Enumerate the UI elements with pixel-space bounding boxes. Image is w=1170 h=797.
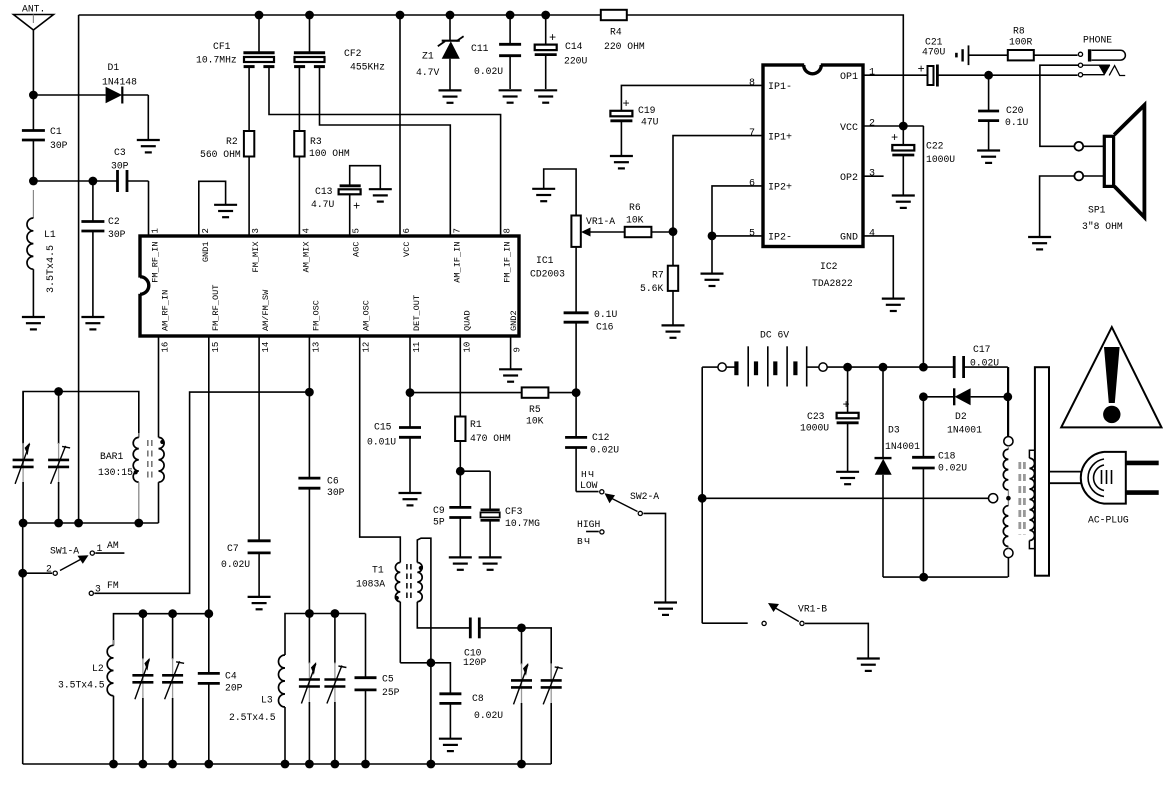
transformer PWR primary winding <box>989 367 1014 577</box>
capacitor C12 0.02U <box>565 393 619 492</box>
ceramic filter CF2 455KHz <box>294 11 385 73</box>
svg-text:CF3: CF3 <box>505 506 523 517</box>
svg-text:560 OHM: 560 OHM <box>200 149 241 160</box>
wire CF2 right lead to pin7 AM_IF_IN <box>320 66 451 236</box>
ground for C23 <box>836 472 859 484</box>
svg-text:20P: 20P <box>225 683 243 694</box>
svg-text:3″8 OHM: 3″8 OHM <box>1082 221 1123 232</box>
warning triangle <box>1061 327 1161 427</box>
svg-text:47U: 47U <box>641 117 659 128</box>
svg-text:C12: C12 <box>592 432 610 443</box>
transformer PWR core <box>1020 462 1025 535</box>
svg-text:AM_MIX: AM_MIX <box>301 242 311 273</box>
phone jack tip contact bars <box>956 45 1007 65</box>
IC1 pin 2 GND1 <box>201 228 211 262</box>
svg-text:IP1+: IP1+ <box>768 132 792 143</box>
variable capacitor AM tuning gang 1 <box>13 392 34 524</box>
variable capacitor FM trimmer <box>541 663 563 764</box>
IC2 pin 2 VCC <box>840 119 875 134</box>
capacitor C4 20P <box>198 614 243 764</box>
wire tank to SW1 pole <box>18 523 27 764</box>
capacitor C11 0.02U <box>471 11 521 89</box>
ceramic filter CF1 10.7MHz <box>196 11 275 67</box>
svg-text:3: 3 <box>251 228 261 233</box>
svg-text:QUAD: QUAD <box>462 310 472 331</box>
capacitor C17 0.02U (series) <box>954 344 1008 437</box>
svg-text:HIGH: HIGH <box>577 519 600 530</box>
svg-text:R2: R2 <box>226 136 238 147</box>
wire pin9 GND2 to ground <box>510 336 512 369</box>
svg-text:AC-PLUG: AC-PLUG <box>1088 514 1129 525</box>
svg-text:30P: 30P <box>327 487 345 498</box>
svg-text:C19: C19 <box>638 105 656 116</box>
svg-text:4: 4 <box>301 228 311 233</box>
svg-text:+: + <box>353 200 360 214</box>
node R1/C9/CF3 <box>456 467 490 476</box>
ground for C9 <box>449 557 472 569</box>
svg-text:L2: L2 <box>92 663 104 674</box>
svg-text:1000U: 1000U <box>800 422 829 433</box>
svg-text:1000U: 1000U <box>926 154 955 165</box>
wire antenna to D1 and C1 node <box>29 91 106 100</box>
svg-text:L1: L1 <box>44 229 56 240</box>
svg-text:+: + <box>891 131 898 145</box>
wire IC2 pin7 to R6/R7 node <box>673 136 763 232</box>
svg-text:FM_MIX: FM_MIX <box>251 242 261 273</box>
resistor R2 560 OHM <box>200 131 254 236</box>
node C10/FM gang <box>517 624 551 680</box>
diode D1 1N4148 <box>102 62 148 140</box>
capacitor C8 0.02U <box>431 663 503 739</box>
wire bottom ground bus <box>23 760 552 769</box>
IC2 pin 1 OP1 <box>840 68 875 83</box>
capacitor C20 0.1U <box>978 75 1028 150</box>
svg-text:8: 8 <box>749 78 755 89</box>
IC1 pin 16 AM_RF_IN <box>161 290 171 353</box>
op IC2 TDA2822 body <box>763 63 863 289</box>
svg-text:1083A: 1083A <box>356 578 385 589</box>
svg-text:R3: R3 <box>310 136 322 147</box>
svg-text:6: 6 <box>402 228 412 233</box>
svg-text:C13: C13 <box>315 186 333 197</box>
IC2 pin 5 IP2- <box>749 228 792 243</box>
svg-text:C14: C14 <box>565 41 583 52</box>
svg-text:C7: C7 <box>227 543 239 554</box>
capacitor C7 0.02U on pin14 <box>221 336 271 597</box>
svg-text:CF2: CF2 <box>344 48 362 59</box>
wire pin10 QUAD to R1 <box>459 336 461 417</box>
variable capacitor FM tuning gang <box>511 628 532 764</box>
svg-text:455KHz: 455KHz <box>350 61 385 72</box>
svg-text:C18: C18 <box>938 450 956 461</box>
svg-text:C20: C20 <box>1006 105 1024 116</box>
wire IC2 pin2 VCC node <box>863 122 924 131</box>
svg-text:4.7U: 4.7U <box>311 199 334 210</box>
potentiometer VR1-A <box>544 169 625 313</box>
resistor R6 10K <box>625 202 673 237</box>
svg-text:C17: C17 <box>973 344 991 355</box>
wire IC2 pin6 to pin5 and ground <box>708 186 763 274</box>
switch SW1-A FM throw <box>89 392 309 595</box>
capacitor C10 120P (series) <box>463 618 522 668</box>
svg-text:C3: C3 <box>114 147 126 158</box>
svg-text:C9: C9 <box>433 505 445 516</box>
capacitor C1 30P <box>22 95 68 181</box>
capacitor C6 30P <box>298 475 344 613</box>
svg-text:1N4001: 1N4001 <box>885 441 920 452</box>
IC1 pin 11 DET_OUT <box>412 295 422 353</box>
resistor R7 5.6K <box>640 232 678 325</box>
wire IC2 pin4 GND to ground <box>863 236 893 299</box>
capacitor C5 25P <box>355 614 400 765</box>
capacitor C18 0.02U <box>912 397 967 577</box>
ground for IC2 pin4 <box>882 299 905 311</box>
svg-text:R5: R5 <box>529 404 541 415</box>
svg-text:0.02U: 0.02U <box>474 710 503 721</box>
wire BAR1 tank top <box>23 392 139 467</box>
capacitor C15 0.01U <box>367 393 421 493</box>
svg-text:C5: C5 <box>382 673 394 684</box>
transformer BAR1 130:15 ferrite antenna <box>98 336 164 523</box>
capacitor C21 470U electrolytic (series) <box>918 37 989 87</box>
ground for D1 <box>137 140 160 152</box>
svg-text:6: 6 <box>749 178 755 189</box>
svg-text:11: 11 <box>412 342 422 353</box>
svg-text:1: 1 <box>869 68 875 79</box>
svg-text:120P: 120P <box>463 657 486 668</box>
resistor R4 220 OHM on rail <box>601 10 645 52</box>
svg-text:C2: C2 <box>108 216 120 227</box>
svg-text:3: 3 <box>869 169 875 180</box>
variable capacitor SW gang <box>299 614 320 765</box>
svg-text:C15: C15 <box>374 422 392 433</box>
wire pin11 DET_OUT node <box>406 336 522 397</box>
svg-text:VCC: VCC <box>402 242 412 257</box>
switch SW2-A <box>576 490 665 603</box>
node OP1/C20 junction <box>984 71 1077 80</box>
svg-text:ANT.: ANT. <box>22 4 45 15</box>
svg-text:Z1: Z1 <box>422 51 434 62</box>
svg-text:3.5Tx4.5: 3.5Tx4.5 <box>58 680 105 691</box>
wire rectifier bottom <box>883 573 1008 582</box>
variable capacitor AM trimmer 2 <box>48 387 70 523</box>
svg-text:GND1: GND1 <box>201 242 211 263</box>
svg-text:130:15: 130:15 <box>98 467 133 478</box>
inductor L1 3.5Tx4.5 <box>27 190 57 317</box>
svg-text:30P: 30P <box>111 161 129 172</box>
IC1 pin 7 AM_IF_IN <box>452 228 462 283</box>
svg-text:IC2: IC2 <box>820 261 838 272</box>
svg-text:FM: FM <box>107 580 119 591</box>
svg-text:ВЧ: ВЧ <box>577 536 591 547</box>
capacitor C23 1000U electrolytic <box>800 367 859 472</box>
ground for C11 <box>499 90 522 102</box>
capacitor C19 47U electrolytic <box>610 97 658 156</box>
svg-text:0.01U: 0.01U <box>367 437 396 448</box>
ground for C14 <box>534 90 557 102</box>
ground for CF3 <box>479 557 502 569</box>
node battery/C23 <box>843 363 852 372</box>
svg-text:10.7MG: 10.7MG <box>505 518 540 529</box>
svg-text:AM/FM_SW: AM/FM_SW <box>261 289 271 331</box>
svg-text:2: 2 <box>869 119 875 130</box>
svg-text:R8: R8 <box>1013 25 1025 36</box>
IC2 pin 3 OP2 <box>840 169 875 184</box>
svg-text:AM_IF_IN: AM_IF_IN <box>452 242 462 283</box>
svg-text:0.1U: 0.1U <box>594 309 617 320</box>
svg-text:3.5Tx4.5: 3.5Tx4.5 <box>46 245 57 293</box>
svg-text:2.5Tx4.5: 2.5Tx4.5 <box>229 712 276 723</box>
svg-text:C1: C1 <box>50 126 62 137</box>
crystal CF3 10.7MG <box>481 471 541 557</box>
svg-text:L3: L3 <box>261 695 273 706</box>
capacitor C9 5P <box>433 471 471 557</box>
svg-text:FM_RF_IN: FM_RF_IN <box>151 242 161 283</box>
zener diode Z1 4.7V <box>416 11 464 91</box>
svg-text:D1: D1 <box>108 62 120 73</box>
variable capacitor MW trimmer <box>162 614 184 764</box>
phone jack contact 3 with break contact <box>1078 65 1125 76</box>
wire CF1 right lead to pin8 FM_IF_IN <box>269 66 501 236</box>
label PHONE <box>1083 35 1112 46</box>
node R6/R7/pin7 <box>669 227 678 236</box>
svg-text:5P: 5P <box>433 517 445 528</box>
svg-text:GND2: GND2 <box>509 310 519 331</box>
diode D3 1N4001 <box>875 363 921 577</box>
svg-text:14: 14 <box>261 342 271 353</box>
svg-text:1N4148: 1N4148 <box>102 77 137 88</box>
svg-text:25P: 25P <box>382 687 400 698</box>
ground for Z1 <box>439 90 462 102</box>
svg-text:AM_OSC: AM_OSC <box>362 300 372 331</box>
ground for C2 <box>81 317 104 329</box>
svg-text:DC 6V: DC 6V <box>760 330 789 341</box>
svg-text:0.02U: 0.02U <box>221 559 250 570</box>
ground for IC2 pin5 <box>701 274 724 286</box>
node FM_OSC pin13 <box>305 336 314 478</box>
ground for speaker <box>1028 237 1051 249</box>
svg-text:SW2-A: SW2-A <box>630 491 659 502</box>
ground for R7 <box>662 325 685 337</box>
svg-text:5: 5 <box>352 228 362 233</box>
svg-text:VR1-A: VR1-A <box>586 216 615 227</box>
wire T1 primary bottom to node <box>400 658 435 764</box>
svg-text:100 OHM: 100 OHM <box>309 148 350 159</box>
wire L2 tank top <box>114 609 214 645</box>
svg-text:R6: R6 <box>629 202 641 213</box>
svg-text:470 OHM: 470 OHM <box>470 433 511 444</box>
svg-text:D3: D3 <box>888 424 900 435</box>
svg-text:1: 1 <box>151 228 161 233</box>
svg-text:C8: C8 <box>472 693 484 704</box>
svg-text:0.02U: 0.02U <box>938 463 967 474</box>
svg-text:10.7MHz: 10.7MHz <box>196 55 237 66</box>
ground for C15 <box>399 493 422 505</box>
svg-text:9: 9 <box>513 347 523 352</box>
svg-text:5.6K: 5.6K <box>640 283 663 294</box>
svg-text:220U: 220U <box>564 56 587 67</box>
svg-text:OP2: OP2 <box>840 173 858 184</box>
ground for C8 <box>439 739 462 751</box>
wire IC2 pin8 to C19 <box>621 85 763 110</box>
label HIGH / cyrillic VCh throw <box>577 519 604 547</box>
IC2 pin 8 IP1- <box>749 78 792 93</box>
IC1 pin 3 FM_MIX <box>251 228 261 272</box>
svg-text:15: 15 <box>211 342 221 353</box>
ground for VR1-A top <box>532 189 555 201</box>
capacitor C13 4.7U electrolytic on AGC pin5 <box>311 166 380 236</box>
inductor L2 3.5Tx4.5 <box>58 640 114 764</box>
svg-text:4: 4 <box>869 228 875 239</box>
svg-text:FM_RF_OUT: FM_RF_OUT <box>211 285 221 331</box>
IC1 pin 14 AM/FM_SW <box>261 289 271 353</box>
wire rail to VCC pin6 <box>396 11 405 236</box>
IC1 pin 10 QUAD <box>462 310 472 352</box>
ground for C19 <box>610 156 633 168</box>
svg-text:0.1U: 0.1U <box>1005 117 1028 128</box>
IC2 pin 6 IP2+ <box>749 178 792 193</box>
svg-text:+: + <box>918 63 925 77</box>
wire battery negative down to VR1-B <box>701 367 703 623</box>
resistor R8 100R <box>1008 25 1078 60</box>
svg-text:220 OHM: 220 OHM <box>604 41 645 52</box>
svg-text:30P: 30P <box>108 229 126 240</box>
svg-text:7: 7 <box>452 228 462 233</box>
capacitor C2 30P <box>81 177 125 317</box>
svg-text:IP2-: IP2- <box>768 233 792 244</box>
ground for C20 <box>977 151 1000 163</box>
svg-text:R7: R7 <box>652 269 664 280</box>
svg-text:10: 10 <box>462 342 472 353</box>
svg-text:C11: C11 <box>471 43 489 54</box>
ground for C22 <box>892 196 915 208</box>
svg-text:SW1-A: SW1-A <box>50 546 79 557</box>
svg-text:TDA2822: TDA2822 <box>812 278 853 289</box>
IC1 pin 5 AGC <box>352 228 362 257</box>
svg-text:12: 12 <box>362 342 372 353</box>
svg-text:+: + <box>549 31 556 45</box>
svg-text:2: 2 <box>201 228 211 233</box>
node R5/C16/C12 <box>572 388 581 397</box>
svg-text:10K: 10K <box>626 214 644 225</box>
wire pin12 AM_OSC to T1 <box>360 336 401 563</box>
IC1 pin 9 GND2 <box>509 310 523 352</box>
battery DC 6V <box>702 330 954 387</box>
svg-text:НЧ: НЧ <box>581 469 595 480</box>
transformer PWR secondary winding <box>1029 450 1035 548</box>
IC1 pin 4 AM_MIX <box>301 228 311 272</box>
transformer T1 1083A <box>356 538 470 663</box>
capacitor C14 220U electrolytic <box>535 11 588 89</box>
wire IC2 pin1 OP1 output <box>863 74 928 76</box>
wire left vertical bus from rail to BAR1 tank <box>78 15 80 523</box>
IC2 pin 4 GND <box>840 228 875 243</box>
svg-text:DET_OUT: DET_OUT <box>412 295 422 331</box>
svg-text:10K: 10K <box>526 415 544 426</box>
ground for L1 <box>22 317 45 329</box>
svg-text:7: 7 <box>749 128 755 139</box>
wire CF2 left lead to R3/pin4 <box>298 66 300 131</box>
svg-text:+: + <box>843 398 850 412</box>
svg-text:OP1: OP1 <box>840 72 858 83</box>
node battery/C18 riser <box>919 363 928 372</box>
phone jack plug body <box>1090 49 1126 61</box>
wire speaker return to ground <box>1040 176 1075 237</box>
svg-text:C6: C6 <box>327 475 339 486</box>
capacitor C16 0.1U <box>564 309 618 393</box>
svg-text:+: + <box>623 97 630 111</box>
wire center-tap feed <box>698 494 989 503</box>
svg-text:0.02U: 0.02U <box>474 66 503 77</box>
AC plug prongs <box>1126 463 1159 493</box>
svg-text:R4: R4 <box>610 27 622 38</box>
diode D2 1N4001 <box>919 388 1012 435</box>
node antenna/C3 junction <box>29 177 118 186</box>
svg-text:AM_RF_IN: AM_RF_IN <box>161 290 171 331</box>
svg-text:VCC: VCC <box>840 123 858 134</box>
capacitor C22 1000U electrolytic <box>891 126 955 196</box>
ground for GND1 <box>214 205 237 217</box>
variable capacitor SW trimmer <box>324 614 346 765</box>
inductor L3 2.5Tx4.5 <box>229 655 285 764</box>
IC1 pin 8 FM_IF_IN <box>503 228 513 283</box>
resistor R5 10K <box>522 387 576 426</box>
svg-text:AM: AM <box>107 540 119 551</box>
svg-text:0.02U: 0.02U <box>590 445 619 456</box>
svg-text:LOW: LOW <box>580 480 598 491</box>
svg-text:FM_IF_IN: FM_IF_IN <box>503 241 513 282</box>
svg-text:SP1: SP1 <box>1088 204 1106 215</box>
resistor R3 100 OHM <box>294 131 350 236</box>
svg-text:C22: C22 <box>926 140 944 151</box>
label LOW / cyrillic NCh <box>580 469 598 491</box>
IC1 pin 1 FM_RF_IN <box>151 228 161 283</box>
IC2 pin 7 IP1+ <box>749 128 792 143</box>
svg-text:5: 5 <box>749 228 755 239</box>
speaker SP1 3"8 OHM <box>1074 105 1144 232</box>
svg-text:VR1-B: VR1-B <box>798 604 827 615</box>
wire pin2 GND1 to ground <box>199 181 226 236</box>
wire top supply rail <box>79 15 904 126</box>
svg-text:C16: C16 <box>596 322 614 333</box>
svg-text:PHONE: PHONE <box>1083 35 1112 46</box>
AC cord panel <box>1035 367 1049 576</box>
op IC1 CD2003 16-pin body <box>138 236 565 336</box>
svg-text:1N4001: 1N4001 <box>947 425 982 436</box>
svg-text:R1: R1 <box>470 419 482 430</box>
IC1 pin 12 AM_OSC <box>362 300 372 352</box>
svg-text:CD2003: CD2003 <box>530 269 565 280</box>
ground for SW2-A <box>654 603 677 615</box>
svg-text:8: 8 <box>503 228 513 233</box>
switch VR1-B power switch <box>702 603 868 659</box>
svg-text:IP2+: IP2+ <box>768 183 792 194</box>
capacitor C3 30P (series) <box>111 147 149 236</box>
variable capacitor MW gang <box>132 614 153 764</box>
svg-text:13: 13 <box>311 342 321 353</box>
phone jack contact 2 wire to speaker <box>1040 63 1110 146</box>
svg-text:C4: C4 <box>225 671 237 682</box>
svg-text:AGC: AGC <box>352 242 362 257</box>
svg-text:BAR1: BAR1 <box>100 451 123 462</box>
ground for GND2 <box>499 369 522 381</box>
phone jack contact 1 <box>1078 52 1082 56</box>
svg-text:T1: T1 <box>372 565 384 576</box>
wires to AC plug <box>1049 472 1081 484</box>
wire CF1 left lead to R2/pin3 <box>248 66 250 131</box>
svg-text:470U: 470U <box>922 47 945 58</box>
svg-text:1: 1 <box>97 543 103 554</box>
